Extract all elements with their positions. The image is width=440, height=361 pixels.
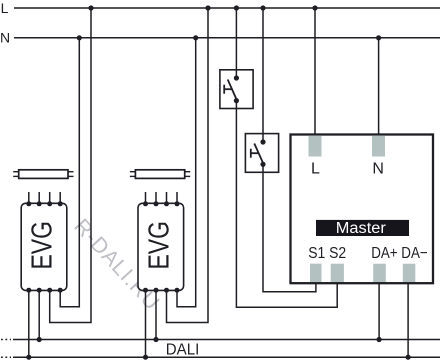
junction DALI1-DA+ bbox=[377, 337, 382, 342]
wire DALI bus line 2 bbox=[1, 356, 440, 358]
watermark R-DALI.RU bbox=[69, 214, 164, 314]
wire L to push-button SW2 bbox=[262, 8, 264, 142]
ballast EVG1 bbox=[21, 192, 67, 293]
svg-text:Master: Master bbox=[336, 220, 386, 237]
wire L to EVG2 (vertical x=208 + elbow to pin3) bbox=[167, 8, 209, 323]
svg-text:EVG: EVG bbox=[143, 221, 175, 269]
svg-text:N: N bbox=[0, 30, 10, 46]
wire EVG2 pin1 to DALI line2 bbox=[145, 290, 147, 357]
junction L-EVG2 bbox=[205, 5, 210, 10]
wire N line bbox=[14, 37, 440, 39]
junction N-master bbox=[376, 35, 381, 40]
wire N to master N pin bbox=[378, 38, 380, 136]
master badge bbox=[316, 220, 409, 236]
master unit U1 bbox=[291, 135, 434, 284]
ballast EVG2 bbox=[138, 192, 184, 293]
push-button SW1 bbox=[220, 70, 253, 109]
wire L line bbox=[14, 7, 440, 9]
wire EVG2 pin2 to DALI line1 bbox=[155, 290, 157, 339]
junction DALI2-DA- bbox=[406, 355, 411, 360]
junction DALI1-EVG2 bbox=[153, 337, 158, 342]
junction L-master bbox=[312, 5, 317, 10]
pin S1 bbox=[310, 264, 322, 282]
svg-text:DA+ DA−: DA+ DA− bbox=[371, 245, 428, 262]
wire DALI bus line 1 bbox=[1, 339, 440, 341]
junction DALI2-EVG1 bbox=[26, 355, 31, 360]
lamp tube EL1 bbox=[13, 170, 73, 179]
wire master DA- to DALI line2 bbox=[407, 283, 409, 357]
wire SW2 to master S1 bbox=[263, 164, 316, 291]
wire EVG1 pin2 to DALI line1 bbox=[38, 290, 40, 339]
junction DALI1-EVG1 bbox=[37, 337, 42, 342]
junction L-SW2 bbox=[260, 5, 265, 10]
pin S2 bbox=[331, 264, 344, 282]
svg-text:EVG: EVG bbox=[27, 221, 59, 269]
wire SW1 to master S2 bbox=[236, 101, 337, 308]
wire N to EVG1 (vertical x=79.3 + elbow to pin4) bbox=[60, 38, 79, 307]
wire EVG1 pin1 to DALI line2 bbox=[28, 290, 30, 357]
push-button SW2 bbox=[245, 134, 278, 173]
junction DALI2-EVG2 bbox=[143, 355, 148, 360]
pin DA- bbox=[403, 264, 416, 282]
pin N bbox=[372, 136, 385, 157]
pin L bbox=[309, 136, 322, 157]
svg-text:N: N bbox=[372, 161, 384, 178]
junction L-SW1 bbox=[234, 5, 239, 10]
svg-text:S1 S2: S1 S2 bbox=[308, 245, 346, 262]
wire master DA+ to DALI line1 bbox=[378, 283, 380, 340]
wire L to master L pin bbox=[314, 8, 316, 136]
pin DA+ bbox=[373, 264, 386, 282]
junction L-EVG1 bbox=[88, 5, 93, 10]
junction N-EVG2 bbox=[193, 35, 198, 40]
junction N-EVG1 bbox=[77, 35, 82, 40]
wire N to EVG2 (vertical x=195.7 + elbow to pin4) bbox=[177, 38, 196, 307]
lamp tube EL2 bbox=[130, 170, 190, 179]
wire L to EVG1 (vertical x=91 + elbow to pin3) bbox=[50, 8, 91, 323]
wire L to push-button SW1 bbox=[235, 8, 237, 78]
svg-text:DALI: DALI bbox=[166, 341, 200, 358]
svg-text:L: L bbox=[1, 0, 9, 16]
svg-text:L: L bbox=[311, 161, 320, 178]
